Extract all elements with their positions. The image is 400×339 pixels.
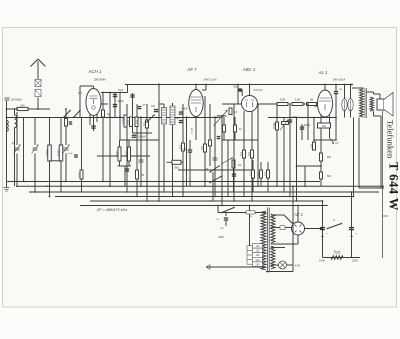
svg-text:5000pF: 5000pF bbox=[138, 137, 146, 139]
svg-text:460: 460 bbox=[327, 156, 332, 159]
svg-text:288C4/64A: 288C4/64A bbox=[94, 79, 106, 82]
svg-text:0,4: 0,4 bbox=[310, 144, 314, 148]
svg-text:20pF: 20pF bbox=[174, 118, 180, 120]
svg-text:4μF: 4μF bbox=[335, 143, 339, 145]
svg-text:1M: 1M bbox=[107, 114, 110, 116]
svg-text:ACH 1: ACH 1 bbox=[88, 69, 102, 74]
svg-text:AL 1: AL 1 bbox=[318, 70, 329, 75]
svg-text:150: 150 bbox=[256, 254, 261, 257]
svg-text:1M: 1M bbox=[238, 165, 241, 167]
svg-text:240V-2,2mA: 240V-2,2mA bbox=[203, 79, 217, 82]
svg-text:10000: 10000 bbox=[45, 149, 49, 157]
svg-text:Telefunken: Telefunken bbox=[386, 120, 396, 159]
svg-text:5pF: 5pF bbox=[142, 105, 146, 107]
svg-text:45W: 45W bbox=[218, 235, 224, 239]
svg-text:140V: 140V bbox=[319, 259, 325, 263]
svg-text:0,1M: 0,1M bbox=[295, 99, 300, 102]
svg-text:1M: 1M bbox=[310, 99, 313, 102]
svg-text:70pF: 70pF bbox=[118, 90, 124, 92]
svg-text:240: 240 bbox=[256, 263, 261, 266]
svg-text:0,3: 0,3 bbox=[77, 173, 81, 177]
svg-text:400pF: 400pF bbox=[117, 101, 124, 103]
svg-text:460: 460 bbox=[322, 125, 327, 128]
svg-text:0,1: 0,1 bbox=[239, 152, 243, 156]
svg-text:0,3: 0,3 bbox=[178, 145, 182, 149]
svg-text:5000: 5000 bbox=[292, 117, 298, 119]
svg-text:50: 50 bbox=[200, 146, 204, 149]
svg-text:LW 500pF: LW 500pF bbox=[11, 99, 22, 102]
svg-text:ZF = 468/473 kHz: ZF = 468/473 kHz bbox=[96, 208, 127, 212]
svg-text:3000: 3000 bbox=[125, 151, 129, 157]
svg-text:152: 152 bbox=[135, 119, 139, 124]
svg-text:AF 7: AF 7 bbox=[186, 67, 197, 72]
svg-text:50pF: 50pF bbox=[183, 149, 189, 151]
svg-text:L.A.: L.A. bbox=[220, 227, 224, 230]
svg-text:0,51: 0,51 bbox=[127, 119, 131, 125]
svg-text:0,1μF: 0,1μF bbox=[67, 153, 73, 155]
svg-text:40: 40 bbox=[257, 172, 261, 175]
svg-text:20000: 20000 bbox=[57, 149, 61, 157]
svg-text:400pF: 400pF bbox=[304, 125, 311, 127]
svg-text:240V-33mA: 240V-33mA bbox=[333, 79, 346, 82]
svg-text:0,1: 0,1 bbox=[142, 122, 146, 126]
svg-text:250pF: 250pF bbox=[181, 109, 188, 111]
svg-text:2MΩ: 2MΩ bbox=[174, 167, 179, 170]
svg-text:6,3V: 6,3V bbox=[295, 264, 301, 268]
svg-text:5000: 5000 bbox=[115, 151, 119, 157]
svg-text:0,5: 0,5 bbox=[264, 172, 268, 176]
svg-text:0,1: 0,1 bbox=[249, 172, 253, 176]
svg-text:50pF: 50pF bbox=[233, 87, 239, 89]
svg-text:T 644 W: T 644 W bbox=[387, 162, 400, 211]
svg-text:70V-7mA: 70V-7mA bbox=[253, 89, 263, 92]
svg-text:500: 500 bbox=[327, 175, 332, 178]
svg-text:ABC 1: ABC 1 bbox=[242, 67, 256, 72]
svg-text:0,5M: 0,5M bbox=[272, 122, 276, 129]
svg-text:Fuse: Fuse bbox=[334, 250, 341, 254]
svg-text:125: 125 bbox=[256, 250, 261, 253]
svg-text:0,04: 0,04 bbox=[121, 118, 125, 124]
svg-text:0,5: 0,5 bbox=[247, 152, 251, 156]
svg-text:0,2M: 0,2M bbox=[280, 99, 285, 102]
svg-text:220: 220 bbox=[256, 259, 261, 262]
svg-text:T.B.: T.B. bbox=[249, 216, 253, 218]
svg-text:1,8mA: 1,8mA bbox=[191, 127, 194, 134]
svg-text:110: 110 bbox=[256, 245, 260, 248]
svg-text:220V: 220V bbox=[352, 259, 358, 263]
svg-text:500: 500 bbox=[20, 103, 25, 107]
